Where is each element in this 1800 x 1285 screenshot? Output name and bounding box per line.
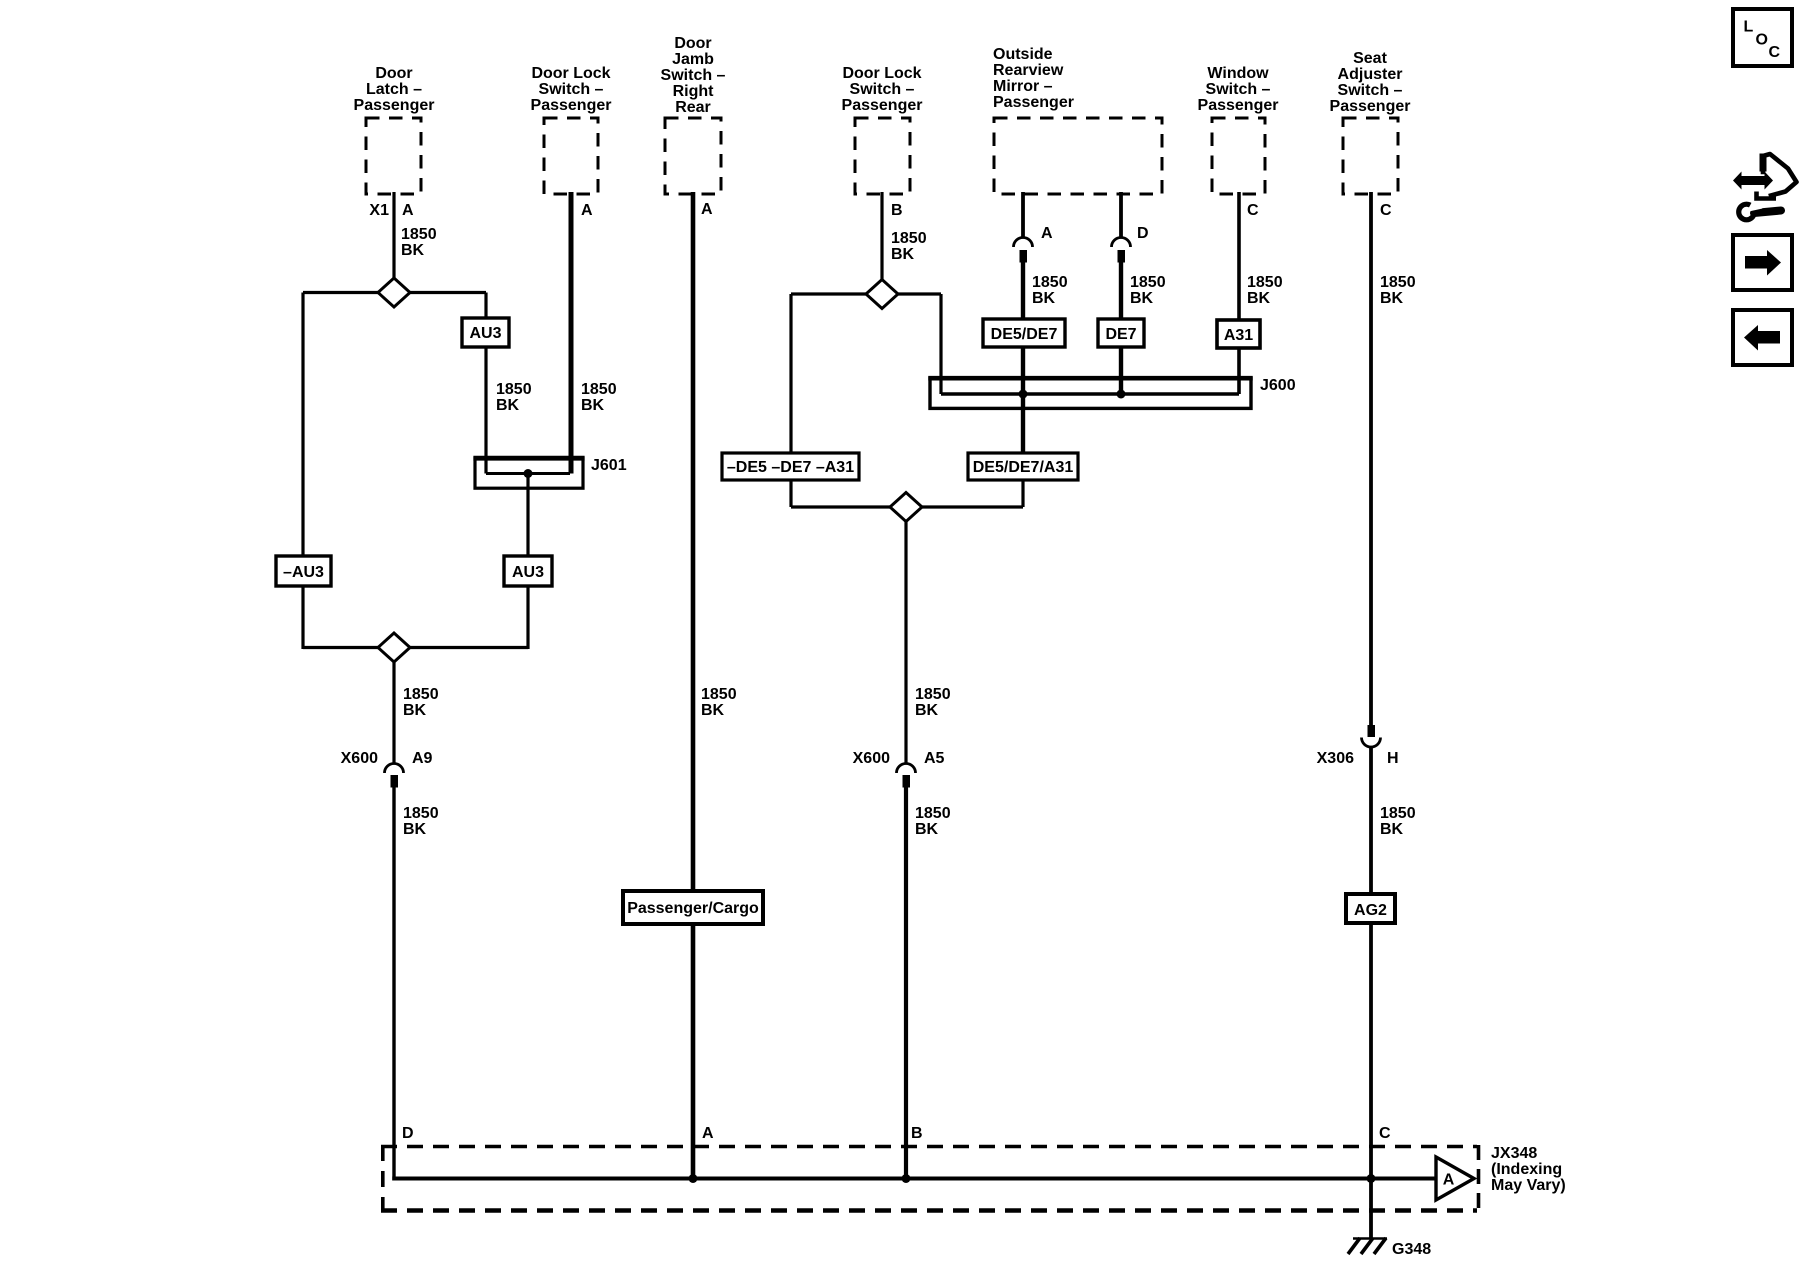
svg-text:Door Lock: Door Lock	[842, 65, 921, 82]
svg-text:C: C	[1380, 202, 1392, 219]
svg-text:Rear: Rear	[675, 99, 711, 116]
svg-text:May Vary): May Vary)	[1491, 1177, 1566, 1194]
label box AU3 (upper)	[462, 318, 509, 347]
label box AU3 (lower)	[504, 556, 552, 586]
component Door Jamb Switch - Right Rear	[661, 35, 726, 194]
svg-text:L: L	[1744, 19, 1754, 36]
splice diamond (door latch lower)	[378, 633, 410, 662]
forward arrow icon box	[1733, 235, 1792, 290]
component Outside Rearview Mirror - Passenger	[993, 46, 1162, 194]
connector JX348 dashed outline right	[1477, 1145, 1481, 1212]
wire from splice down to X600 A5	[904, 521, 907, 763]
wire from J601 dot down through AU3 (lower)	[526, 474, 529, 650]
svg-text:–DE5 –DE7 –A31: –DE5 –DE7 –A31	[727, 459, 854, 476]
connector half circle at mirror pin D	[1112, 238, 1131, 248]
indexing triangle pin A of JX348	[1436, 1157, 1474, 1200]
svg-text:1850: 1850	[403, 686, 439, 703]
svg-text:X306: X306	[1317, 750, 1354, 767]
wrench handle	[1754, 211, 1781, 214]
svg-text:Passenger: Passenger	[354, 97, 435, 114]
svg-text:Passenger: Passenger	[1198, 97, 1279, 114]
connector JX348 dashed outline top	[381, 1145, 1477, 1149]
svg-text:X600: X600	[853, 750, 890, 767]
mouse tail corner	[1757, 192, 1777, 199]
wire mirror pin A stub	[1021, 192, 1025, 237]
splice diamond (door lock B)	[866, 280, 898, 309]
wire door latch pin A down to splice	[392, 192, 395, 280]
wire from A9 terminal down to ground bus	[392, 787, 395, 1181]
svg-text:A: A	[1041, 225, 1053, 242]
component Door Lock Switch - Passenger (second)	[842, 65, 923, 194]
svg-text:X600: X600	[341, 750, 378, 767]
svg-text:BK: BK	[403, 821, 427, 838]
svg-text:Switch –: Switch –	[1338, 82, 1403, 99]
svg-text:BK: BK	[1380, 821, 1404, 838]
svg-text:Rearview: Rearview	[993, 62, 1064, 79]
svg-text:J600: J600	[1260, 377, 1296, 394]
svg-text:Switch –: Switch –	[850, 81, 915, 98]
svg-text:D: D	[1137, 225, 1149, 242]
svg-text:A: A	[702, 1125, 714, 1142]
ground bus wire inside JX348	[392, 1177, 1437, 1181]
svg-text:O: O	[1756, 32, 1768, 49]
svg-text:1850: 1850	[1247, 274, 1283, 291]
double headed arrow	[1733, 172, 1773, 190]
svg-text:A: A	[701, 201, 713, 218]
mouse body stub	[1760, 154, 1767, 172]
svg-text:Adjuster: Adjuster	[1338, 66, 1403, 83]
wire from A5 terminal down to ground bus	[904, 787, 908, 1180]
svg-text:1850: 1850	[1130, 274, 1166, 291]
svg-text:A: A	[402, 202, 414, 219]
wire from terminal D down into J600	[1119, 262, 1123, 394]
svg-text:1850: 1850	[401, 226, 437, 243]
svg-text:AU3: AU3	[512, 564, 544, 581]
wire lower splice horizontal	[303, 646, 528, 649]
label box Passenger/Cargo	[623, 891, 763, 924]
svg-text:(Indexing: (Indexing	[1491, 1161, 1562, 1178]
svg-text:Switch –: Switch –	[661, 67, 726, 84]
svg-text:JX348: JX348	[1491, 1145, 1537, 1162]
wrench open end	[1739, 204, 1755, 220]
junction dot in J600 at DE5/DE7 wire	[1019, 390, 1028, 399]
svg-text:BK: BK	[1130, 290, 1154, 307]
svg-text:BK: BK	[401, 242, 425, 259]
svg-text:Door: Door	[674, 35, 711, 52]
label box DE5/DE7	[983, 319, 1065, 347]
bus line inside J600	[941, 392, 1239, 395]
svg-text:Jamb: Jamb	[672, 51, 714, 68]
connector pin terminal D	[1118, 250, 1126, 263]
label box -AU3	[276, 556, 331, 586]
back arrow icon box	[1733, 310, 1792, 365]
wire from X306 down to ground G348	[1369, 748, 1373, 1238]
svg-text:Door Lock: Door Lock	[531, 65, 610, 82]
component Door Latch - Passenger	[354, 65, 435, 194]
svg-text:BK: BK	[581, 397, 605, 414]
svg-text:1850: 1850	[1380, 274, 1416, 291]
label box -DE5 -DE7 -A31	[722, 453, 859, 480]
wire splice branch horizontal (door latch splice)	[303, 291, 486, 294]
wire left leg down to -AU3	[301, 293, 304, 650]
svg-text:1850: 1850	[1380, 805, 1416, 822]
connector pin terminal at X306	[1368, 725, 1376, 737]
wire from lower splice down to X600 A9	[392, 662, 395, 763]
wire splice branch horizontal (door lock B splice)	[791, 292, 941, 295]
svg-text:Mirror –: Mirror –	[993, 78, 1053, 95]
svg-text:Passenger: Passenger	[531, 97, 612, 114]
svg-text:A: A	[581, 202, 593, 219]
svg-text:Passenger: Passenger	[1330, 98, 1411, 115]
svg-text:Door: Door	[375, 65, 412, 82]
svg-text:BK: BK	[915, 821, 939, 838]
junction dot in J600 at DE7 wire	[1117, 390, 1126, 399]
svg-text:Passenger: Passenger	[842, 97, 923, 114]
connector JX348 dashed outline bottom	[381, 1208, 1477, 1213]
svg-text:Outside: Outside	[993, 46, 1053, 63]
svg-text:BK: BK	[701, 702, 725, 719]
wire right leg down into J600	[939, 294, 942, 394]
svg-text:B: B	[891, 202, 903, 219]
svg-text:1850: 1850	[496, 381, 532, 398]
svg-text:AU3: AU3	[469, 325, 501, 342]
wire left leg down to -DE5 -DE7 -A31 box	[789, 294, 792, 507]
svg-text:BK: BK	[403, 702, 427, 719]
svg-text:1850: 1850	[403, 805, 439, 822]
svg-text:AG2: AG2	[1354, 902, 1387, 919]
connector half circle X600 A5	[897, 764, 916, 774]
svg-text:BK: BK	[1380, 290, 1404, 307]
svg-text:C: C	[1379, 1125, 1391, 1142]
splice diamond (door latch upper)	[378, 278, 410, 307]
svg-text:1850: 1850	[701, 686, 737, 703]
svg-text:Passenger/Cargo: Passenger/Cargo	[627, 900, 759, 917]
svg-text:Seat: Seat	[1353, 50, 1387, 67]
svg-text:–AU3: –AU3	[283, 564, 324, 581]
wire right leg down through AU3 into J601	[484, 293, 487, 474]
svg-text:DE7: DE7	[1105, 326, 1136, 343]
mouse body outline	[1763, 154, 1797, 196]
svg-text:X1: X1	[369, 202, 389, 219]
component Door Lock Switch - Passenger (front)	[531, 65, 612, 194]
junction dot door jamb wire on bus	[689, 1174, 698, 1183]
connector half circle at mirror pin A	[1014, 238, 1033, 248]
svg-text:H: H	[1387, 750, 1399, 767]
connector pin terminal A9	[391, 775, 399, 788]
svg-text:Switch –: Switch –	[539, 81, 604, 98]
svg-text:Passenger: Passenger	[993, 94, 1074, 111]
svg-text:BK: BK	[1247, 290, 1271, 307]
wire from terminal A down through DE5/DE7 into J600 and lower box	[1021, 262, 1025, 455]
svg-text:BK: BK	[1032, 290, 1056, 307]
svg-text:C: C	[1247, 202, 1259, 219]
svg-text:B: B	[911, 1125, 923, 1142]
svg-text:DE5/DE7: DE5/DE7	[991, 326, 1058, 343]
junction block J601	[475, 458, 583, 488]
svg-text:BK: BK	[891, 246, 915, 263]
svg-text:Switch –: Switch –	[1206, 81, 1271, 98]
svg-text:G348: G348	[1392, 1241, 1431, 1258]
junction block J600	[930, 378, 1251, 408]
svg-text:A9: A9	[412, 750, 433, 767]
label box AG2	[1346, 894, 1395, 923]
component Window Switch - Passenger	[1198, 65, 1279, 194]
svg-text:C: C	[1769, 44, 1781, 61]
wire DE5/DE7/A31 leg down to lower splice	[1021, 480, 1024, 507]
connector JX348 dashed outline left	[381, 1145, 385, 1212]
junction dot A5 wire on bus	[902, 1174, 911, 1183]
wire window switch C down to A31 label box	[1237, 192, 1241, 394]
connector pin terminal A5	[903, 775, 911, 788]
splice diamond (X600 A5 splice)	[890, 493, 922, 522]
LOC icon box	[1733, 9, 1792, 66]
wire door jamb switch A down to ground bus	[691, 192, 696, 1180]
junction dot inside J601	[524, 469, 533, 478]
svg-text:Latch –: Latch –	[366, 81, 422, 98]
label box DE7	[1098, 319, 1144, 347]
connector half circle X600 A9	[385, 764, 404, 774]
label JX348 (Indexing May Vary)	[1491, 1145, 1566, 1194]
wire seat adjuster C down to X306	[1369, 192, 1373, 725]
svg-text:Right: Right	[673, 83, 715, 100]
svg-text:1850: 1850	[891, 230, 927, 247]
bus line inside J601	[486, 472, 570, 475]
svg-text:BK: BK	[496, 397, 520, 414]
svg-text:DE5/DE7/A31: DE5/DE7/A31	[973, 459, 1074, 476]
wire door lock switch B down to splice	[880, 192, 883, 281]
ground symbol G348	[1348, 1238, 1387, 1254]
svg-text:1850: 1850	[1032, 274, 1068, 291]
wire mirror pin D stub	[1119, 192, 1123, 237]
svg-text:A31: A31	[1224, 327, 1253, 344]
adjustable component icon (mouse with arrows and wrench)	[1733, 154, 1797, 220]
label box A31	[1217, 320, 1260, 348]
svg-text:Window: Window	[1207, 65, 1269, 82]
svg-text:A: A	[1443, 1172, 1455, 1189]
wire lower splice horizontal (to X600 A5)	[791, 505, 1023, 508]
connector half circle X306	[1362, 738, 1381, 748]
svg-text:1850: 1850	[915, 686, 951, 703]
junction dot seat adjuster wire on bus	[1367, 1174, 1376, 1183]
label box DE5/DE7/A31	[968, 453, 1078, 480]
svg-text:1850: 1850	[581, 381, 617, 398]
svg-text:BK: BK	[915, 702, 939, 719]
wire door lock switch A down into J601	[569, 192, 574, 474]
svg-text:A5: A5	[924, 750, 945, 767]
connector pin terminal A	[1020, 250, 1028, 263]
svg-text:D: D	[402, 1125, 414, 1142]
component Seat Adjuster Switch - Passenger	[1330, 50, 1411, 194]
svg-text:1850: 1850	[915, 805, 951, 822]
svg-text:J601: J601	[591, 457, 627, 474]
